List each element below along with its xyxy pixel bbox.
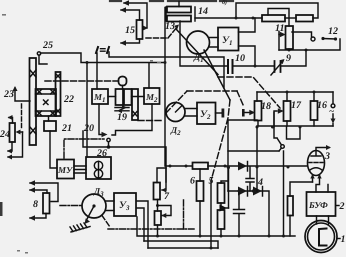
svg-text:17: 17	[291, 100, 302, 111]
svg-text:18: 18	[261, 101, 271, 112]
svg-text:11: 11	[275, 23, 284, 34]
svg-text:БУФ: БУФ	[308, 200, 328, 210]
svg-text:12: 12	[328, 26, 338, 37]
svg-text:5: 5	[209, 176, 214, 187]
svg-text:3: 3	[324, 151, 330, 162]
svg-text:9: 9	[286, 53, 291, 64]
svg-text:б): б)	[222, 0, 227, 6]
svg-text:20: 20	[83, 123, 94, 134]
svg-text:2: 2	[339, 201, 345, 212]
svg-text:4: 4	[257, 177, 263, 188]
svg-text:8: 8	[33, 199, 38, 210]
svg-text:6: 6	[190, 176, 195, 187]
svg-text:21: 21	[61, 123, 72, 134]
svg-text:16: 16	[317, 100, 327, 111]
svg-text:22: 22	[63, 94, 74, 105]
svg-text:МУ: МУ	[57, 165, 74, 175]
svg-text:13: 13	[165, 21, 175, 32]
svg-text:23: 23	[3, 89, 14, 100]
svg-text:14: 14	[198, 6, 208, 17]
svg-text:15: 15	[125, 25, 135, 36]
svg-text:1: 1	[341, 234, 346, 245]
svg-text:24: 24	[0, 129, 10, 140]
svg-text:~: ~	[329, 106, 334, 116]
svg-text:19: 19	[117, 112, 127, 123]
svg-text:25: 25	[42, 40, 53, 51]
svg-text:10: 10	[235, 53, 245, 64]
svg-text:26: 26	[96, 148, 107, 159]
